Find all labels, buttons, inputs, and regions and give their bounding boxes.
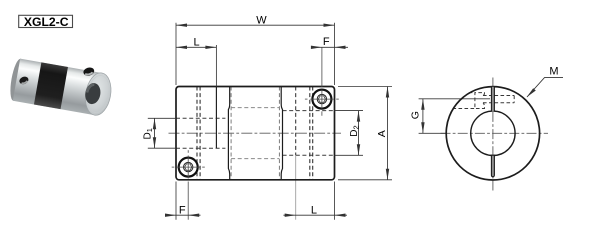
svg-text:L: L	[194, 36, 200, 48]
svg-text:W: W	[256, 14, 267, 26]
dimension G	[421, 99, 424, 134]
hidden hub boss edge left	[230, 87, 232, 180]
hidden bore D2 lines	[283, 110, 335, 112]
dimension D1	[148, 118, 176, 148]
photo of coupling	[8, 58, 114, 118]
hidden hub boss edge right	[278, 87, 280, 180]
dimension F (bottom left)	[165, 214, 201, 217]
bottom slit	[491, 155, 494, 177]
hidden bore D1 lines	[176, 117, 225, 119]
leader M	[527, 65, 563, 97]
extension lines top	[175, 23, 177, 85]
svg-text:F: F	[179, 205, 186, 217]
top slit	[491, 87, 494, 112]
sleeve left face line	[215, 87, 217, 149]
hub outer circle	[446, 87, 539, 180]
label box XGL2-C	[19, 15, 73, 29]
dimension F (top right)	[311, 46, 348, 49]
extension lines bottom	[175, 182, 177, 220]
screw axis / G extension line	[419, 98, 490, 100]
svg-text:L: L	[311, 205, 317, 217]
svg-text:A: A	[376, 130, 388, 137]
screw hole on left hub	[18, 75, 30, 85]
svg-text:F: F	[323, 36, 330, 48]
dimension W	[176, 24, 335, 27]
screw hole on right hub	[82, 66, 95, 77]
sleeve boundary left (waisted)	[228, 87, 229, 180]
svg-text:XGL2-C: XGL2-C	[24, 15, 69, 29]
svg-text:G: G	[410, 111, 422, 119]
body outline	[176, 87, 335, 180]
hidden right sleeve face line	[295, 87, 297, 156]
bore inner circle	[471, 111, 515, 155]
svg-text:M: M	[549, 65, 558, 77]
extension line below (right sleeve face)	[295, 155, 297, 219]
clamp screw head (top right)	[305, 47, 339, 116]
centerline (side view axis)	[169, 132, 342, 134]
hidden clamp screw hole (end view)	[453, 93, 515, 109]
sleeve boundary right (waisted)	[281, 87, 282, 180]
svg-text:D2: D2	[349, 125, 361, 136]
clamp screw head (bottom left)	[172, 150, 205, 220]
hidden clamp screw hole lines left hub	[196, 87, 198, 180]
hidden sleeve cavity bottom	[231, 158, 279, 160]
hidden sleeve cavity top	[231, 107, 279, 109]
hidden clamp screw hole lines right hub	[309, 87, 311, 180]
dimension L (bottom right)	[283, 214, 347, 217]
centerlines	[441, 132, 549, 134]
svg-text:D1: D1	[143, 128, 155, 139]
dimension L (top left)	[176, 46, 216, 49]
dimension D2	[335, 111, 364, 156]
dimension A	[338, 87, 392, 180]
